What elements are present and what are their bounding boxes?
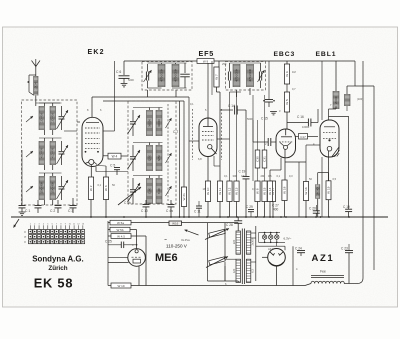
svg-text:250: 250 (222, 62, 227, 66)
tiny text Vo Pov (181, 238, 190, 242)
IF2 primary coil (233, 64, 240, 87)
resistor box W9 (197, 59, 214, 64)
svg-text:W 12: W 12 (228, 187, 232, 195)
wire antenna section 1 bottom (45, 130, 53, 135)
band switch contacts (26, 116, 33, 192)
mains selector arrow 2 (206, 257, 228, 268)
tube EBL1 envelope (320, 120, 339, 157)
svg-text:W 7: W 7 (215, 74, 219, 80)
svg-text:C 25: C 25 (105, 240, 112, 244)
svg-text:W 5a: W 5a (117, 221, 124, 225)
IF1 top wires (148, 63, 187, 64)
svg-text:6,3: 6,3 (250, 269, 254, 273)
label C3 (68, 209, 73, 213)
svg-text:EF5: EF5 (199, 49, 215, 58)
output transformer secondary (345, 94, 351, 106)
wire EF5 grid stub (189, 140, 199, 142)
resistor W19v (326, 181, 331, 200)
wires HT secondary (251, 233, 256, 262)
IF transformer 2 (dashed box) (226, 62, 266, 91)
osc trimmer arrow 1 (166, 118, 172, 128)
label C4a (166, 209, 173, 213)
power transformer primary (232, 231, 241, 282)
capacitor C24 (295, 247, 305, 257)
svg-text:Vo Pov: Vo Pov (181, 238, 190, 242)
svg-text:130-410: 130-410 (51, 112, 55, 123)
oscillator coil L11b (156, 110, 162, 136)
variable capacitor C2 (59, 141, 65, 165)
svg-text:6250: 6250 (157, 154, 161, 161)
svg-text:470-2000: 470-2000 (248, 69, 252, 81)
wire antenna section 1 top (39, 103, 62, 106)
svg-text:0,5: 0,5 (241, 174, 245, 178)
resistor box W19 (111, 283, 131, 288)
resistor W18 (282, 180, 287, 201)
selector verticals (208, 223, 226, 281)
tube label EBC3 (274, 51, 296, 58)
capacitor C1 and ground (19, 195, 26, 215)
svg-text:C 20: C 20 (309, 207, 316, 211)
tube EK2 envelope (82, 117, 103, 166)
wire EBL1 cathode feedback (329, 116, 349, 209)
wires boxes left (108, 223, 111, 236)
wire lamps feed (258, 233, 260, 243)
svg-text:1M: 1M (292, 70, 296, 74)
capacitor C20 bus (313, 205, 320, 217)
wire resistors to bus (91, 200, 106, 218)
maker text Zurich (48, 265, 67, 272)
antenna shorting switch (27, 75, 35, 95)
wire to C15 (252, 120, 254, 142)
svg-text:EK2: EK2 (88, 49, 105, 56)
antenna coil L5 (39, 176, 45, 200)
svg-text:C 15: C 15 (261, 117, 268, 121)
svg-text:400: 400 (273, 208, 279, 212)
label C14 (228, 104, 235, 108)
svg-text:C17: C17 (300, 135, 306, 139)
wire oscillator grid (179, 101, 181, 217)
label C10 (141, 209, 148, 213)
wire osc section 3 top (133, 176, 163, 179)
wires AZ1 top (256, 242, 285, 250)
antenna coil assembly (dashed box) (22, 100, 78, 205)
selector arrow 1 (205, 228, 229, 239)
variable capacitor C3 arrow (57, 180, 69, 199)
svg-text:6100: 6100 (147, 187, 151, 194)
svg-text:C 24: C 24 (295, 247, 302, 251)
wire EF5 screen stub (217, 138, 230, 140)
capacitor C3 (70, 198, 77, 213)
wire EBL1 screen feed (321, 61, 323, 120)
antenna coil L3 (39, 141, 45, 165)
antenna (32, 59, 41, 74)
capacitor C28 (234, 217, 242, 228)
wire EBC3 triode down (270, 158, 281, 181)
wire resistor x220 to bus (219, 202, 221, 218)
wire horizontal y92 (230, 91, 242, 93)
label C29 and cap (246, 205, 254, 217)
svg-text:1500-420: 1500-420 (51, 182, 55, 194)
IF1 bottom wires (148, 87, 187, 89)
svg-text:EBC3: EBC3 (274, 51, 296, 58)
svg-text:6250: 6250 (147, 154, 151, 161)
capacitor C19b bus (345, 209, 352, 217)
wire W9 to EF5 (207, 63, 209, 118)
capacitor C4a (168, 200, 175, 217)
wire C6 node down and EK2 grid stub (103, 61, 115, 131)
label C15 (261, 117, 268, 121)
voltage selector arrow (185, 230, 199, 236)
wires AZ1 bottom (262, 246, 293, 285)
svg-text:AZ1: AZ1 (312, 253, 335, 264)
wire into W19 (108, 285, 111, 287)
capacitor C15 (253, 138, 276, 146)
capacitor C23 (341, 247, 353, 284)
svg-text:AZ 1: AZ 1 (268, 247, 274, 251)
maker text Sondyna A.G. (32, 255, 83, 264)
svg-text:470-2000: 470-2000 (173, 69, 177, 81)
IF2 leads down (237, 88, 251, 97)
resistor W8 (255, 181, 260, 202)
wire EK2 cathode down (90, 165, 92, 177)
label C25 (105, 240, 112, 244)
wire W16 to transformer (182, 222, 239, 224)
tube label EBL1 (316, 51, 337, 58)
bus junction dots (90, 216, 350, 218)
wire OT primary bottom (335, 107, 337, 110)
svg-text:0,5: 0,5 (268, 174, 272, 178)
IF1 primary coil (158, 64, 165, 87)
osc trimmer arrow 2 (166, 153, 172, 163)
IF2 trimmer 2 (259, 63, 261, 88)
wire left column (21, 150, 23, 195)
svg-text:C 29: C 29 (246, 205, 253, 209)
svg-text:6100: 6100 (157, 187, 161, 194)
wire W45 down (131, 236, 146, 286)
svg-text:C 2: C 2 (50, 209, 55, 213)
label C2 (50, 209, 55, 213)
IF2 trimmer 1 (228, 63, 230, 88)
wire EBC3 cathode down (284, 150, 286, 181)
svg-text:C 28: C 28 (226, 223, 233, 227)
wire W4 to osc box (121, 155, 128, 157)
mains earth arrow (14, 219, 20, 228)
wire antenna bus in box (36, 102, 60, 104)
svg-text:2x300: 2x300 (250, 238, 254, 246)
svg-text:C 14: C 14 (228, 104, 235, 108)
resistor box W16 (169, 221, 182, 226)
oscillator coil L12b (156, 145, 162, 171)
svg-text:C 11: C 11 (194, 210, 201, 214)
filter choke (311, 276, 344, 284)
wires selector to primary 2 (225, 259, 236, 281)
svg-text:5000: 5000 (247, 117, 253, 121)
svg-text:W 5: W 5 (285, 99, 289, 105)
wire resistor x273 bottom (272, 202, 274, 218)
wire EK2 screen down (98, 166, 106, 178)
switch matrix column ticks (30, 225, 83, 229)
svg-text:C 7: C 7 (173, 130, 178, 134)
svg-text:C 19: C 19 (239, 170, 246, 174)
wire antenna section 2 top (39, 138, 62, 141)
svg-text:0,1: 0,1 (190, 102, 194, 106)
IF2 secondary coil (247, 64, 254, 87)
ground below C6 (121, 84, 128, 87)
oscillator padder C7 (130, 110, 136, 136)
wire W7 down (217, 87, 221, 181)
svg-text:10000: 10000 (316, 187, 320, 195)
capacitor C5 and label (110, 164, 120, 176)
resistor W7 (214, 67, 219, 87)
capacitor C6 (119, 61, 130, 83)
wire vertical x253 (252, 95, 254, 181)
svg-text:W 14: W 14 (268, 187, 272, 195)
svg-text:220: 220 (232, 239, 236, 244)
wire osc section 2 top (133, 143, 163, 146)
oscillator padder C9 (130, 178, 136, 204)
label 6.3V (284, 237, 292, 241)
svg-text:0,2: 0,2 (252, 187, 256, 191)
svg-text:6,8: 6,8 (198, 157, 202, 161)
ballast tube ME6 (128, 249, 146, 267)
tiny value labels (87, 62, 363, 286)
wire osc section 1 top (133, 108, 163, 111)
tube AZ1 envelope (268, 248, 286, 266)
svg-text:W 3: W 3 (104, 185, 108, 191)
svg-text:C 5: C 5 (110, 164, 115, 168)
svg-text:5000: 5000 (128, 78, 134, 82)
svg-text:470-2000: 470-2000 (234, 69, 238, 81)
wire right vertical x374 (355, 86, 374, 270)
capacitor box C30 (255, 150, 260, 168)
wire resistor W7 top (218, 61, 220, 67)
svg-text:W 15: W 15 (263, 187, 267, 195)
wire EBL1 cathode down (328, 151, 330, 181)
label C4b (124, 201, 131, 205)
svg-text:W 6: W 6 (285, 71, 289, 77)
svg-text:P: P (25, 235, 27, 239)
label C7 (173, 130, 178, 134)
wire EF5 cathode down (207, 157, 209, 182)
wire vertical x237 (236, 92, 238, 181)
wire IF1 secondary down (175, 90, 177, 97)
svg-text:W 4.5: W 4.5 (117, 235, 125, 239)
svg-text:ME6: ME6 (155, 252, 178, 264)
switch matrix row labels (25, 230, 27, 244)
label C16 (297, 115, 304, 119)
capacitor C19 (243, 177, 250, 218)
label C20 (309, 207, 316, 211)
antenna coil L1 (39, 106, 45, 130)
svg-text:1500-420: 1500-420 (40, 182, 44, 194)
wire OT to EBL1 anode (329, 109, 337, 120)
antenna coil L2 (50, 106, 56, 130)
svg-text:0,1: 0,1 (277, 174, 281, 178)
wire screen vertical (188, 97, 190, 217)
tube EBC3 envelope (276, 129, 296, 158)
wire EBL1 down 1 (321, 157, 323, 217)
wire EBC3 resistor top (286, 61, 288, 64)
svg-text:Sondyna A.G.: Sondyna A.G. (32, 255, 83, 264)
svg-text:0,3: 0,3 (289, 174, 293, 178)
IF2 trimmer 2 arrow (258, 70, 265, 82)
svg-text:W 19: W 19 (117, 284, 124, 288)
svg-text:Fee: Fee (320, 270, 326, 274)
wire IF1 to EK2 anode line (147, 90, 149, 97)
osc trimmer arrow 3 (166, 186, 172, 196)
wire EF5 screen (211, 61, 213, 95)
antenna coil choke 10000 (34, 76, 38, 96)
variable capacitor C1 arrow (57, 110, 69, 129)
resistor box W45 (111, 234, 131, 239)
oscillator coil L13a (147, 178, 153, 204)
variable capacitor C2 arrow (57, 145, 69, 164)
EF5 shield left (192, 109, 194, 160)
svg-text:2M: 2M (261, 174, 265, 178)
wires transformer primary top (225, 223, 238, 258)
capacitor C2a (55, 200, 62, 213)
wire W5b to ME6 (130, 230, 137, 249)
svg-text:300: 300 (233, 174, 238, 178)
component box C17 (299, 134, 308, 140)
wire EBC3 anode to EBL1 (295, 136, 318, 138)
oscillator coil assembly (dashed box) (128, 101, 176, 204)
svg-text:410-470: 410-470 (51, 147, 55, 158)
variable capacitor C3 (59, 176, 65, 200)
svg-text:W 21: W 21 (182, 193, 186, 201)
svg-text:C31: C31 (263, 156, 267, 162)
capacitor C14 coupling (220, 106, 246, 115)
svg-text:C 4b: C 4b (124, 201, 131, 205)
oscillator coil L12a (147, 145, 153, 171)
wire coil box to EK2 grid (64, 122, 80, 131)
output transformer primary (333, 91, 339, 109)
wire ME6 down (138, 266, 140, 286)
wire vertical x228 (229, 92, 231, 181)
wire between resistors (286, 84, 288, 92)
oscillator coil L11a (147, 110, 153, 136)
svg-text:W 13: W 13 (235, 187, 239, 195)
capacitor 6n8 (263, 61, 275, 107)
wires AZ1 filament left (251, 226, 256, 281)
oscillator padder C9 arrow (128, 183, 141, 202)
power transformer secondary windings (246, 231, 254, 282)
label ME6 (155, 252, 178, 264)
wire left heater vertical (107, 221, 109, 286)
wire EK2 to W4 (103, 155, 108, 157)
svg-text:C 6: C 6 (116, 70, 121, 74)
resistor W6 (284, 64, 289, 84)
svg-text:10000: 10000 (302, 125, 310, 129)
IF transformer 1 (dashed box) (142, 62, 192, 91)
wires W16v (306, 145, 320, 217)
resistor box W4 (108, 153, 121, 159)
resistor W3 (103, 177, 108, 200)
wire antenna section 3 bottom (45, 200, 53, 205)
capacitor box C31 (262, 150, 267, 168)
wires EBC3 resistors to bus (270, 201, 285, 218)
svg-text:110-250 V: 110-250 V (166, 244, 188, 249)
resistor box W5b (110, 227, 130, 232)
wire antenna section 3 top (39, 173, 62, 176)
svg-text:W 8: W 8 (256, 188, 260, 194)
resistor box W5a (110, 220, 131, 225)
tube label EK2 (88, 49, 105, 56)
dial lamps (259, 232, 286, 243)
switch matrix column numbers (30, 223, 85, 225)
wire right vertical x363 (357, 61, 363, 284)
oscillator padder C8 arrow (128, 150, 141, 169)
mains selector contact 1 (209, 229, 226, 237)
mains voltage text (164, 238, 188, 249)
IF1 tuning capacitor (180, 63, 190, 88)
svg-text:C 23: C 23 (341, 247, 348, 251)
wires OT secondary (346, 86, 348, 111)
power transformer core (242, 229, 244, 285)
wire B+ top line (124, 60, 355, 62)
svg-text:C 1: C 1 (25, 209, 30, 213)
wire resistor x229.5 to bus (229, 202, 231, 218)
oscillator padder C7 arrow (128, 115, 141, 134)
resistor W10 (205, 181, 210, 202)
model text EK 58 (34, 276, 74, 291)
svg-text:W 18: W 18 (283, 186, 287, 194)
capacitor C10 (143, 200, 150, 217)
IF1 secondary coil (172, 64, 179, 87)
variable capacitor C1 (59, 106, 65, 130)
label C19b (343, 205, 350, 209)
svg-text:20000: 20000 (334, 96, 338, 104)
wire AVC vertical (183, 101, 185, 217)
wire to EBC3 top (286, 112, 288, 129)
svg-text:10000: 10000 (157, 119, 161, 127)
capacitor C11 (194, 201, 202, 217)
mains selector contact 2 (209, 257, 226, 265)
label C6 (116, 70, 121, 74)
wire EF5 suppressor stub (214, 156, 220, 166)
wirewound resistor 10000 (316, 184, 320, 199)
bottom heater wire (131, 285, 305, 287)
resistor W14 (267, 181, 272, 202)
wire AVC horizontal (103, 100, 184, 102)
svg-text:W 19: W 19 (327, 186, 331, 194)
wire resistor x257.5 bottom (257, 202, 259, 218)
resistor W17 (270, 181, 275, 202)
svg-text:10000: 10000 (34, 81, 38, 89)
svg-text:10000: 10000 (147, 119, 151, 127)
wire C14 to C19 (245, 110, 247, 176)
svg-text:Zürich: Zürich (48, 265, 67, 272)
wire EK2 heater (96, 167, 128, 172)
svg-text:6,3V~: 6,3V~ (284, 237, 292, 241)
resistor W15 (262, 181, 267, 202)
svg-text:W 5b: W 5b (116, 228, 123, 232)
wire B+ to OT primary (335, 61, 337, 91)
antenna coil L4 (50, 141, 56, 165)
svg-text:W 9: W 9 (203, 60, 209, 64)
ground near 6n8 (270, 112, 277, 115)
wires stacked caps (258, 95, 265, 181)
wire EBC3 diode load (285, 162, 306, 217)
oscillator coil L13b (156, 178, 162, 204)
svg-text:1M: 1M (203, 187, 207, 191)
tube label EF5 (199, 49, 215, 58)
capacitor C25 (108, 242, 137, 249)
wire C23 top (348, 244, 350, 251)
wires ME6 left (108, 257, 129, 262)
svg-text:C 10: C 10 (141, 209, 148, 213)
label C27 400 (272, 204, 279, 212)
